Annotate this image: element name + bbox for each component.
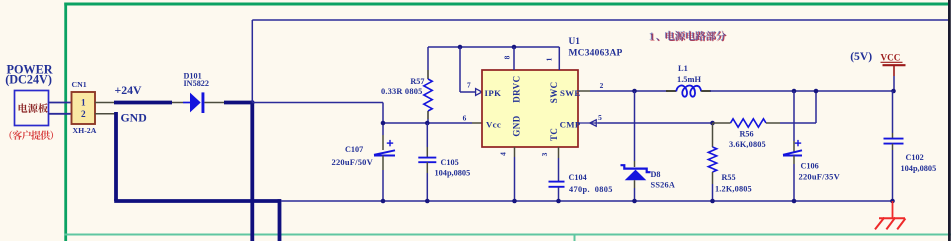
svg-text:GND: GND [511, 115, 521, 136]
svg-text:R56: R56 [740, 130, 754, 139]
ground symbol (earth) [892, 201, 894, 218]
wire R56 to output tap [780, 122, 816, 124]
node ground junction [381, 199, 386, 204]
svg-text:470p. 0805: 470p. 0805 [569, 185, 613, 194]
wire +24V up to top rail [251, 20, 253, 103]
resistor R55 1.2K [712, 123, 714, 147]
svg-text:1.2K,0805: 1.2K,0805 [715, 185, 752, 194]
wire source box to CN1 pin1 [49, 102, 72, 104]
node ground junction [792, 199, 797, 204]
svg-text:1: 1 [649, 31, 655, 43]
svg-text:6: 6 [463, 113, 467, 122]
svg-text:SWE: SWE [560, 88, 580, 98]
U1 pin 3 TC stub [558, 147, 560, 158]
svg-text:C105: C105 [441, 158, 459, 167]
node D8 tap [632, 89, 637, 94]
U1 pin 2 SWE stub [578, 90, 590, 92]
power source box 电源板 [15, 91, 49, 126]
node top rail to IPK [458, 45, 463, 50]
svg-text:104p,0805: 104p,0805 [901, 164, 937, 173]
wire GND thick horizontal [114, 199, 281, 203]
svg-text:C104: C104 [569, 173, 587, 182]
svg-text:1: 1 [81, 99, 86, 109]
svg-text:+24V: +24V [115, 83, 143, 97]
node ground junction [556, 199, 561, 204]
wire +24V thick D101 to junction [224, 101, 252, 105]
svg-text:220uF/50V: 220uF/50V [332, 157, 374, 167]
wire top rail +24V [252, 19, 948, 21]
wire GND thick vertical from CN1 [114, 112, 118, 201]
wire ground rail [281, 200, 893, 202]
svg-text:2: 2 [600, 81, 604, 90]
svg-text:5: 5 [598, 113, 602, 122]
svg-text:R55: R55 [722, 173, 736, 182]
svg-text:GND: GND [121, 111, 147, 125]
wire R57 top rail [428, 46, 559, 48]
svg-text:CN1: CN1 [72, 80, 87, 89]
node R55/R56 junction [710, 121, 715, 126]
sheet border right (black) [948, 0, 951, 241]
svg-text:SS26A: SS26A [651, 180, 676, 189]
pin 7 arrow [476, 89, 482, 96]
capacitor C105 104p,0805 [426, 123, 428, 147]
wire down to D8 [634, 91, 636, 161]
wire SWE to L1 [590, 90, 668, 92]
U1 pin 1 SWC stub [558, 47, 560, 70]
section divider bottom (teal) [64, 234, 951, 236]
svg-text:4: 4 [499, 152, 508, 156]
node C106 tap [792, 89, 797, 94]
wire GND thick drop to lower section [278, 199, 282, 241]
wire Vcc rail to pin 6 [383, 122, 472, 124]
node ground junction [710, 199, 715, 204]
svg-text:SWC: SWC [549, 81, 559, 103]
inductor L1 1.5mH [666, 90, 676, 92]
wire junction to Vcc rail corner [252, 102, 383, 104]
svg-text:2: 2 [81, 110, 86, 120]
node ground junction [890, 199, 895, 204]
svg-text:IN5822: IN5822 [184, 79, 209, 88]
connector CN1 [72, 92, 96, 124]
svg-text:D8: D8 [651, 170, 661, 179]
diode D101 IN5822 [172, 102, 183, 104]
capacitor C104 470p [558, 158, 560, 182]
svg-text:(DC24V): (DC24V) [5, 73, 52, 87]
wire +24V thick CN1 to D101 [114, 101, 172, 105]
svg-text:3.6K,0805: 3.6K,0805 [729, 140, 766, 149]
node feedback tap [814, 89, 819, 94]
sheet border left (green) [64, 3, 67, 241]
node ground junction [512, 199, 517, 204]
wire +24V thick drop to lower section [250, 103, 254, 241]
svg-text:XH-2A: XH-2A [73, 126, 97, 135]
wire L1 to output node [710, 90, 894, 92]
svg-text:DRVC: DRVC [511, 76, 521, 103]
svg-text:TC: TC [549, 128, 559, 141]
svg-text:MC34063AP: MC34063AP [569, 49, 623, 59]
label (客户提供) [9, 130, 12, 139]
node ground junction [425, 199, 430, 204]
node C107 top [381, 121, 386, 126]
section divider vertical stub (teal) [574, 235, 576, 241]
node R57 bottom junction [425, 121, 430, 126]
svg-text:7: 7 [467, 81, 471, 90]
svg-text:3: 3 [540, 152, 549, 156]
IC U1 MC34063AP [482, 70, 578, 147]
svg-text:8: 8 [503, 55, 512, 59]
svg-text:104p,0805: 104p,0805 [435, 169, 471, 178]
svg-text:Vcc: Vcc [486, 119, 501, 129]
svg-text:CMP: CMP [560, 119, 581, 129]
svg-text:IPK: IPK [485, 88, 502, 98]
capacitor C102 104p,0805 [892, 91, 894, 133]
diode D8 SS26A (schottky) [634, 161, 636, 167]
capacitor C107 220uF/50V [382, 123, 384, 135]
resistor R57 0.33R [427, 47, 429, 70]
node VCC junction [891, 89, 896, 94]
U1 pin 5 CMP stub + arrow [578, 122, 598, 124]
node +24V junction [250, 100, 255, 105]
svg-text:C106: C106 [801, 162, 819, 171]
svg-text:L1: L1 [678, 64, 688, 73]
svg-text:0.33R 0805: 0.33R 0805 [381, 87, 423, 96]
svg-text:C107: C107 [345, 145, 363, 154]
section title 1、电源电路部分 [650, 31, 727, 43]
wire CMP line [598, 122, 713, 124]
svg-text:220uF/35V: 220uF/35V [799, 171, 841, 181]
svg-text:VCC: VCC [881, 53, 901, 63]
U1 pin 4 GND stub [514, 147, 516, 157]
svg-text:(5V): (5V) [850, 50, 872, 63]
svg-text:C102: C102 [906, 153, 924, 162]
capacitor C106 220uF/35V [793, 91, 795, 141]
svg-text:R57: R57 [410, 77, 424, 86]
wire source box to CN1 pin2 [49, 113, 72, 115]
node ground junction [632, 199, 637, 204]
svg-text:1: 1 [545, 57, 554, 61]
resistor R56 3.6K [713, 122, 731, 124]
sheet border top (green) [64, 3, 949, 6]
U1 pin 8 DRVC stub [512, 45, 517, 50]
svg-text:1.5mH: 1.5mH [677, 75, 701, 84]
svg-text:U1: U1 [569, 37, 581, 47]
wire down to pin 7 [459, 47, 461, 92]
